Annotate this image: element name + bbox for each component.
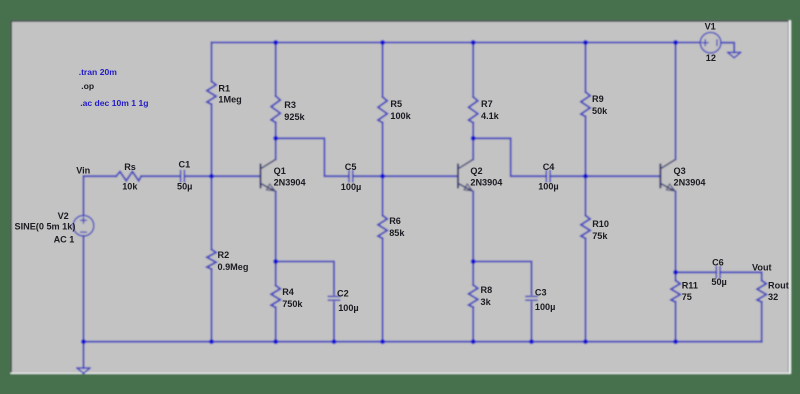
svg-text:.op: .op <box>81 81 94 91</box>
wire C4 to node <box>550 175 585 177</box>
node rail-R9 <box>583 40 588 45</box>
svg-text:50µ: 50µ <box>711 277 726 287</box>
node rail-R3 <box>273 40 278 45</box>
node Q1 base <box>209 174 214 179</box>
svg-text:100µ: 100µ <box>538 181 558 191</box>
svg-text:R3: R3 <box>284 100 296 110</box>
svg-text:10k: 10k <box>122 181 138 191</box>
svg-text:75k: 75k <box>592 231 608 241</box>
resistor Rout <box>757 281 766 303</box>
svg-text:Rout: Rout <box>768 280 789 290</box>
wire emitter to C2 <box>276 262 334 295</box>
capacitor C3 <box>526 295 537 297</box>
svg-text:.tran 20m: .tran 20m <box>79 67 118 77</box>
svg-text:C1: C1 <box>179 159 191 169</box>
wire node to Q2 base <box>383 175 458 177</box>
capacitor C1 <box>180 171 182 182</box>
resistor R8 <box>472 262 474 286</box>
wire base node to Q1 <box>212 175 261 177</box>
wire emitter node to C6 <box>676 271 717 273</box>
node gnd-C3 <box>529 339 534 344</box>
wire V2 to ground rail <box>83 236 85 342</box>
resistor R5 <box>382 43 384 97</box>
node gnd-R8 <box>471 339 476 344</box>
wire Q3 emitter <box>675 191 677 272</box>
resistor Rs <box>116 172 141 181</box>
wire bottom ground rail <box>84 341 762 343</box>
node rail-Q3 <box>673 40 678 45</box>
svg-text:Q3: Q3 <box>674 166 686 176</box>
svg-text:C4: C4 <box>543 162 556 172</box>
svg-text:0.9Meg: 0.9Meg <box>218 262 249 272</box>
wire V1 to ground <box>721 43 734 53</box>
svg-text:Q1: Q1 <box>274 166 286 176</box>
svg-text:R10: R10 <box>592 219 609 229</box>
svg-text:C2: C2 <box>337 289 349 299</box>
wire emitter to C3 <box>473 262 531 295</box>
transistor Q3 <box>660 159 675 191</box>
node rail-R7 <box>471 40 476 45</box>
wire C5 to node <box>353 175 383 177</box>
node Q2 base <box>380 174 385 179</box>
wire C2 to ground rail <box>333 302 335 342</box>
svg-text:.ac dec 10m 1 1g: .ac dec 10m 1 1g <box>80 98 148 108</box>
svg-text:750k: 750k <box>282 299 303 309</box>
wire C3 to ground rail <box>531 302 533 342</box>
wire Q3 collector to rail <box>675 43 677 160</box>
node Q3 emitter <box>673 270 678 275</box>
svg-text:100µ: 100µ <box>535 302 555 312</box>
svg-text:R4: R4 <box>282 287 295 297</box>
resistor R7 <box>472 43 474 97</box>
svg-text:R6: R6 <box>389 216 401 226</box>
resistor R11 <box>675 272 677 280</box>
wire C1 to base node <box>184 175 211 177</box>
svg-text:100µ: 100µ <box>341 182 361 192</box>
wire Vin node <box>84 175 117 177</box>
svg-text:50k: 50k <box>592 106 608 116</box>
node gnd-V2 <box>81 339 86 344</box>
svg-text:2N3904: 2N3904 <box>274 178 307 188</box>
svg-text:50µ: 50µ <box>177 181 192 191</box>
svg-text:C3: C3 <box>535 288 547 298</box>
voltage source V1 <box>700 32 721 53</box>
node Q2 emitter <box>471 259 476 264</box>
wire ground stem <box>83 342 85 368</box>
node gnd-R11 <box>673 339 678 344</box>
wire Q2 collector <box>472 138 474 159</box>
svg-text:C6: C6 <box>712 258 724 268</box>
resistor R2 <box>211 176 213 249</box>
node Q2 collector <box>471 136 476 141</box>
resistor R1 <box>211 43 213 82</box>
svg-text:2N3904: 2N3904 <box>470 178 503 188</box>
resistor R3 <box>275 43 277 97</box>
ground (bottom left) <box>77 368 90 373</box>
svg-text:12: 12 <box>706 53 716 63</box>
svg-text:V1: V1 <box>705 22 716 32</box>
node rail-R5 <box>380 40 385 45</box>
wire Q1 collector <box>275 138 277 159</box>
svg-text:100k: 100k <box>390 111 411 121</box>
svg-text:32: 32 <box>768 292 778 302</box>
svg-text:R11: R11 <box>682 280 698 290</box>
svg-text:R7: R7 <box>481 99 493 109</box>
svg-text:Rs: Rs <box>124 162 136 172</box>
wire top supply rail <box>212 42 701 44</box>
svg-text:Q2: Q2 <box>470 166 482 176</box>
resistor R10 <box>585 176 587 215</box>
wire node to Q3 base <box>586 175 661 177</box>
svg-text:100µ: 100µ <box>338 303 358 313</box>
capacitor C2 <box>328 295 339 297</box>
node gnd-R4 <box>273 339 278 344</box>
svg-text:925k: 925k <box>284 112 305 122</box>
svg-text:1Meg: 1Meg <box>218 95 241 105</box>
svg-text:Vout: Vout <box>752 263 772 273</box>
svg-text:R2: R2 <box>218 250 230 260</box>
svg-text:R5: R5 <box>390 99 402 109</box>
voltage source V2 <box>83 176 85 215</box>
wire Q1 emitter <box>275 191 277 261</box>
wire collector node to C5 <box>276 138 349 176</box>
node gnd-R6 <box>380 339 385 344</box>
svg-text:3k: 3k <box>481 297 492 307</box>
svg-text:AC 1: AC 1 <box>54 235 75 245</box>
wire Rs to C1 <box>141 175 180 177</box>
transistor Q2 <box>458 159 473 191</box>
node gnd-R10 <box>583 339 588 344</box>
capacitor C5 <box>348 171 350 182</box>
wire collector node to C4 <box>473 138 546 176</box>
svg-text:R1: R1 <box>218 84 230 94</box>
node Q1 emitter <box>273 259 278 264</box>
ground (top right) <box>728 52 741 57</box>
node gnd-R2 <box>209 339 214 344</box>
wire C6 to Vout <box>720 272 762 280</box>
node gnd-C2 <box>332 339 337 344</box>
wire Q2 emitter <box>472 191 474 261</box>
svg-text:SINE(0 5m 1k): SINE(0 5m 1k) <box>15 221 76 231</box>
capacitor C4 <box>545 171 547 182</box>
svg-text:R8: R8 <box>481 285 493 295</box>
node Q3 base <box>583 174 588 179</box>
resistor R6 <box>382 176 384 215</box>
node Q1 collector <box>273 136 278 141</box>
svg-text:C5: C5 <box>345 162 357 172</box>
svg-text:R9: R9 <box>592 94 604 104</box>
svg-text:4.1k: 4.1k <box>481 111 500 121</box>
resistor R4 <box>275 262 277 286</box>
resistor R9 <box>585 43 587 93</box>
svg-text:2N3904: 2N3904 <box>674 178 707 188</box>
svg-text:75: 75 <box>682 292 692 302</box>
svg-text:Vin: Vin <box>76 166 90 176</box>
transistor Q1 <box>261 159 276 191</box>
svg-text:85k: 85k <box>389 228 405 238</box>
svg-text:V2: V2 <box>58 211 69 221</box>
capacitor C6 <box>715 267 717 278</box>
